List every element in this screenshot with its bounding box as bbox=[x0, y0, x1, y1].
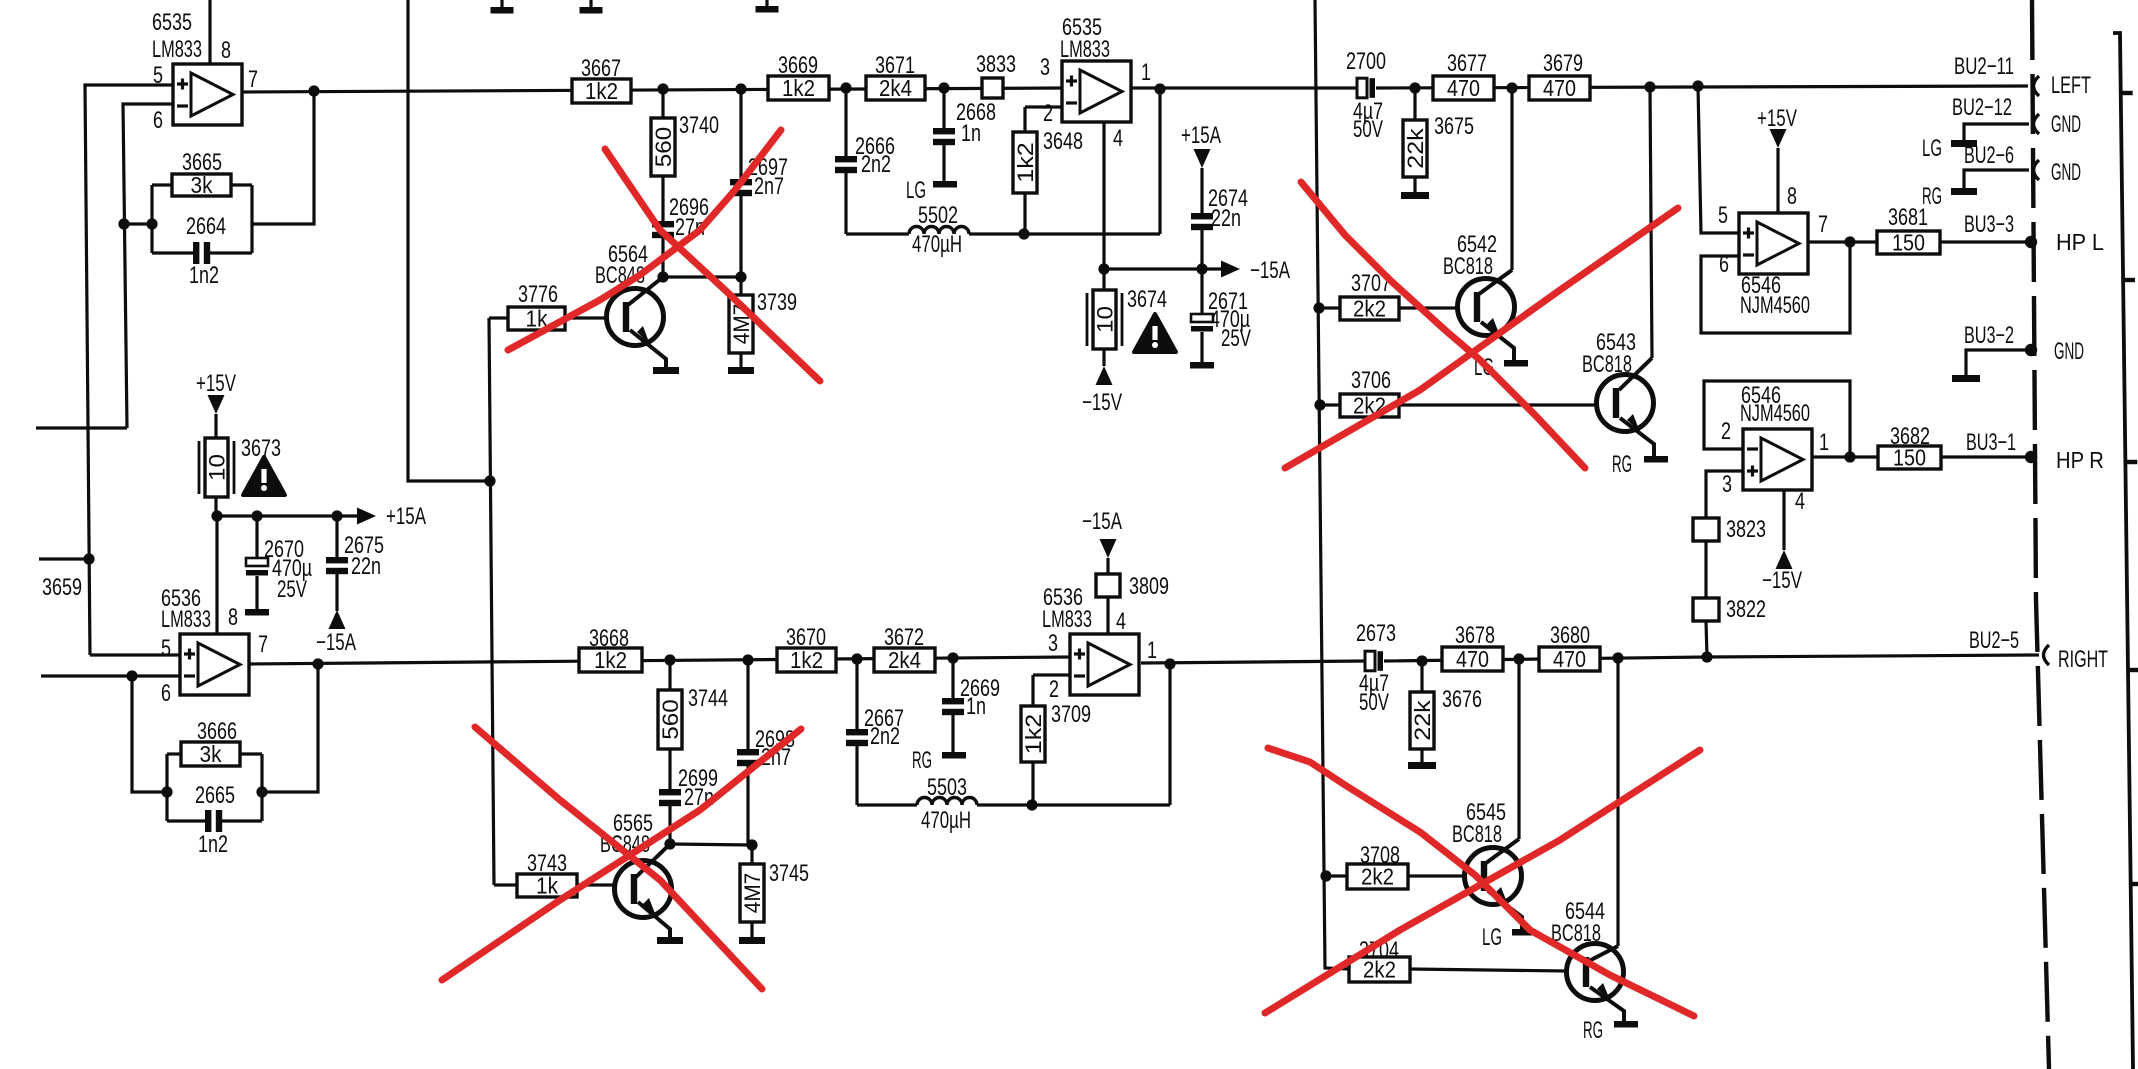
wire output 6546a bbox=[1808, 240, 1877, 243]
node 3675 tap bbox=[1409, 82, 1420, 93]
wire pin2 6535b bbox=[1025, 105, 1062, 108]
svg-text:3k: 3k bbox=[200, 741, 222, 767]
wire BU2-6 to RG bbox=[1964, 170, 2029, 189]
svg-text:3679: 3679 bbox=[1543, 50, 1583, 77]
resistor 3678 470 bbox=[1442, 647, 1503, 671]
svg-text:BU3−1: BU3−1 bbox=[1966, 429, 2016, 456]
node 4M7 top bbox=[735, 271, 746, 282]
svg-text:2k4: 2k4 bbox=[879, 75, 912, 101]
wire output feedback drop bbox=[1158, 89, 1161, 234]
svg-text:470: 470 bbox=[1447, 75, 1480, 101]
wire collector 6565 bbox=[636, 844, 670, 877]
svg-text:3: 3 bbox=[1040, 54, 1050, 81]
node output 6535a bbox=[308, 85, 319, 96]
capacitor 2675 22n bbox=[335, 516, 338, 557]
svg-text:−15A: −15A bbox=[1082, 508, 1122, 535]
capacitor 2665 1n2 bbox=[167, 819, 205, 822]
resistor 3708 2k2 bbox=[1326, 874, 1347, 877]
connector BU2-6 bbox=[2034, 160, 2040, 180]
svg-text:−15V: −15V bbox=[1762, 567, 1802, 594]
red cross 3 stroke A bbox=[1301, 182, 1585, 468]
node pin6/feedback bbox=[118, 218, 129, 229]
svg-text:3833: 3833 bbox=[976, 51, 1016, 78]
connector BU2-5 bbox=[2044, 645, 2050, 665]
node 6545 collector tap bbox=[1513, 653, 1524, 664]
svg-text:2k2: 2k2 bbox=[1353, 296, 1386, 322]
wire emitter 6542 bbox=[1481, 322, 1514, 361]
wire collector 6542 bbox=[1510, 88, 1513, 270]
ground (top edge 1) bbox=[500, 0, 503, 8]
ground LG (6545) bbox=[1512, 929, 1536, 936]
ground (top edge 2) bbox=[589, 0, 592, 8]
resistor 3669 1k2 bbox=[768, 76, 829, 100]
node 6546a input tap bbox=[1692, 80, 1703, 91]
svg-text:10: 10 bbox=[1093, 306, 1118, 333]
resistor 3673 10 (fusible) bbox=[205, 438, 228, 497]
node feedback left rail b bbox=[161, 786, 172, 797]
red cross 2 stroke A bbox=[475, 727, 762, 989]
svg-text:RG: RG bbox=[912, 747, 932, 774]
wire emitter 6565 bbox=[638, 902, 670, 938]
node 2667 tap bbox=[851, 653, 862, 664]
resistor 3668 1k2 bbox=[579, 648, 642, 672]
svg-text:6: 6 bbox=[153, 107, 163, 134]
arrow -15V (6546b) bbox=[1776, 550, 1793, 569]
arrow +15A bbox=[357, 508, 376, 525]
resistor 3706 2k2 bbox=[1320, 403, 1340, 406]
wire BU3-2 to gnd bbox=[1966, 350, 2031, 376]
red cross 2 stroke B bbox=[442, 729, 801, 980]
ground RG (2669) bbox=[942, 752, 966, 759]
svg-text:3744: 3744 bbox=[688, 685, 728, 712]
wire 3823-3822 bbox=[1704, 541, 1707, 598]
svg-text:LEFT: LEFT bbox=[2051, 72, 2091, 99]
wire pin5 6536a bbox=[90, 653, 180, 656]
resistor 3707 2k2 bbox=[1319, 306, 1340, 309]
svg-text:1k2: 1k2 bbox=[585, 78, 618, 104]
node 6542 collector tap bbox=[1506, 82, 1517, 93]
svg-text:1k2: 1k2 bbox=[594, 647, 627, 673]
wire output 6535b bbox=[1132, 86, 1357, 89]
svg-text:1: 1 bbox=[1147, 637, 1157, 664]
resistor 3672 2k4 bbox=[874, 648, 935, 672]
wire feedback line 5503 bbox=[857, 803, 917, 806]
ground LG (6542) bbox=[1504, 360, 1528, 367]
resistor 3739 4M7 bbox=[739, 277, 742, 295]
op-amp U6536b bbox=[1070, 634, 1139, 695]
svg-text:3674: 3674 bbox=[1127, 286, 1167, 313]
svg-text:−15A: −15A bbox=[1250, 257, 1290, 284]
svg-text:RG: RG bbox=[1583, 1017, 1603, 1044]
svg-text:22n: 22n bbox=[1211, 205, 1241, 232]
node 2675 tap bbox=[331, 510, 342, 521]
node feedback left rail bbox=[146, 218, 157, 229]
svg-text:+15A: +15A bbox=[386, 503, 426, 530]
svg-text:1n: 1n bbox=[966, 693, 986, 720]
wire output feedback drop b bbox=[1168, 664, 1171, 805]
node 2697 tap bbox=[735, 83, 746, 94]
wire feedback loop rails bbox=[150, 185, 153, 253]
wire input lower bbox=[41, 674, 180, 677]
svg-text:7: 7 bbox=[1818, 211, 1828, 238]
arrow -15A (rail) bbox=[1221, 261, 1240, 278]
node 3745 top bbox=[746, 839, 757, 850]
node output 6546b bbox=[1844, 451, 1855, 462]
svg-text:2k4: 2k4 bbox=[888, 647, 921, 673]
svg-text:1k2: 1k2 bbox=[1013, 142, 1038, 183]
node jog bbox=[484, 475, 495, 486]
node 3706 tap bbox=[1314, 399, 1325, 410]
wire pin2 6536b bbox=[1033, 673, 1070, 676]
svg-text:150: 150 bbox=[1892, 230, 1925, 256]
svg-text:2: 2 bbox=[1049, 676, 1059, 703]
power +15V arrow bbox=[208, 395, 225, 414]
warning triangle 3674 bbox=[1134, 314, 1176, 352]
svg-text:25V: 25V bbox=[1221, 325, 1251, 352]
wire BU2-12 to LG bbox=[1964, 124, 2029, 141]
svg-text:22k: 22k bbox=[1403, 127, 1428, 169]
resistor 3674 10 (fusible) bbox=[1093, 290, 1116, 349]
node collector 6565 bbox=[664, 838, 675, 849]
svg-text:LM833: LM833 bbox=[1060, 36, 1110, 63]
connector BU2-12 bbox=[2034, 114, 2040, 134]
svg-text:RIGHT: RIGHT bbox=[2058, 646, 2108, 673]
svg-text:470: 470 bbox=[1456, 646, 1489, 672]
svg-text:2: 2 bbox=[1043, 100, 1053, 127]
capacitor 2698 2n7 bbox=[746, 660, 749, 749]
svg-text:3776: 3776 bbox=[518, 281, 558, 308]
svg-text:LG: LG bbox=[1482, 924, 1502, 951]
svg-text:560: 560 bbox=[651, 127, 676, 168]
node 3648 bottom bbox=[1018, 228, 1029, 239]
svg-text:470: 470 bbox=[1553, 646, 1586, 672]
capacitor 2696 27n bbox=[661, 176, 664, 221]
wire feedback tap bbox=[124, 222, 152, 225]
svg-text:+15V: +15V bbox=[1757, 105, 1797, 132]
svg-text:3: 3 bbox=[1048, 630, 1058, 657]
svg-text:8: 8 bbox=[221, 37, 231, 64]
node output 6536b bbox=[1164, 658, 1175, 669]
svg-text:1k2: 1k2 bbox=[790, 647, 823, 673]
red cross 4 stroke A bbox=[1268, 748, 1694, 1016]
svg-text:+15A: +15A bbox=[1181, 122, 1221, 149]
node pin6 6536a bbox=[126, 670, 137, 681]
node +15A rail left bbox=[211, 510, 222, 521]
node collector 6564 bbox=[657, 271, 668, 282]
wire 6546a pin5 drop bbox=[1698, 86, 1739, 233]
svg-text:6535: 6535 bbox=[152, 9, 192, 36]
node 2669 tap bbox=[947, 652, 958, 663]
svg-text:25V: 25V bbox=[277, 576, 307, 603]
node pin4/-15A rail bbox=[1098, 263, 1109, 274]
resistor 3677 470 bbox=[1433, 76, 1494, 100]
svg-text:3676: 3676 bbox=[1442, 686, 1482, 713]
wire 3822 to bus bbox=[1706, 621, 1707, 657]
node 3708 tap bbox=[1320, 870, 1331, 881]
arrow -15A (3809) bbox=[1100, 539, 1117, 558]
svg-text:3675: 3675 bbox=[1434, 113, 1474, 140]
svg-text:2n2: 2n2 bbox=[870, 723, 900, 750]
svg-text:1n2: 1n2 bbox=[198, 831, 228, 858]
svg-text:LM833: LM833 bbox=[1042, 606, 1092, 633]
inductor L5502 bbox=[909, 227, 969, 235]
svg-text:2n2: 2n2 bbox=[861, 151, 891, 178]
capacitor 2673 4u7 bbox=[1365, 651, 1375, 671]
capacitor 2697 2n7 bbox=[739, 89, 742, 179]
svg-text:470µH: 470µH bbox=[912, 231, 962, 258]
svg-text:BC818: BC818 bbox=[1452, 821, 1502, 848]
node 6543 collector tap bbox=[1644, 81, 1655, 92]
wire feedback line 5502 bbox=[846, 232, 909, 235]
svg-text:−15A: −15A bbox=[316, 629, 356, 656]
node output 6546a bbox=[1844, 236, 1855, 247]
wire feedback rails b bbox=[165, 754, 168, 821]
red cross 3 stroke B bbox=[1285, 208, 1678, 468]
svg-text:7: 7 bbox=[258, 631, 268, 658]
resistor 3671 2k4 bbox=[866, 76, 925, 100]
wire feedback to output b bbox=[262, 664, 318, 792]
resistor 3833 bbox=[982, 78, 1003, 98]
node 3822 tap bbox=[1701, 651, 1712, 662]
wire pin8 6536a bbox=[215, 516, 218, 634]
wire emitter 6544 bbox=[1590, 987, 1624, 1022]
svg-text:1n2: 1n2 bbox=[189, 262, 219, 289]
wire input upper bbox=[36, 426, 127, 429]
svg-text:2673: 2673 bbox=[1356, 620, 1396, 647]
svg-text:22n: 22n bbox=[351, 553, 381, 580]
svg-text:560: 560 bbox=[658, 699, 683, 740]
op-amp U6535a bbox=[173, 64, 242, 125]
ground (top edge 3) bbox=[765, 0, 768, 6]
svg-text:2: 2 bbox=[1721, 418, 1731, 445]
svg-text:2k2: 2k2 bbox=[1361, 864, 1394, 890]
wire feedback 6546a bbox=[1701, 242, 1850, 333]
svg-text:3678: 3678 bbox=[1455, 622, 1495, 649]
svg-text:50V: 50V bbox=[1353, 116, 1383, 143]
resistor 3776 1k bbox=[489, 316, 508, 319]
wire collector 6543 bbox=[1650, 87, 1652, 358]
resistor 3665 3k bbox=[152, 183, 172, 186]
resistor 3682 150 bbox=[1878, 446, 1941, 469]
red cross 1 stroke B bbox=[508, 130, 781, 350]
tick right edge y93 bbox=[2121, 91, 2133, 95]
op-amp U6536a bbox=[180, 634, 249, 695]
svg-text:1n: 1n bbox=[961, 120, 981, 147]
tick right edge y670 bbox=[2128, 668, 2138, 672]
svg-text:NJM4560: NJM4560 bbox=[1740, 400, 1810, 427]
capacitor 2668 1n bbox=[942, 88, 945, 128]
svg-text:1k2: 1k2 bbox=[782, 75, 815, 101]
wire output 6546b bbox=[1812, 455, 1878, 458]
capacitor 2664 1n2 bbox=[152, 251, 193, 254]
svg-text:3659: 3659 bbox=[42, 574, 82, 601]
svg-text:1k2: 1k2 bbox=[1021, 714, 1046, 755]
wire feedback drop 6536a bbox=[132, 676, 167, 792]
wire pin4 6536b bbox=[1106, 597, 1109, 634]
arrow -15V (3674) bbox=[1102, 349, 1105, 366]
wire 3659 input bbox=[39, 557, 90, 560]
svg-text:8: 8 bbox=[1787, 183, 1797, 210]
wire output 6536a bbox=[249, 657, 1070, 664]
svg-text:BU2−11: BU2−11 bbox=[1954, 53, 2014, 80]
node 3740 tap bbox=[657, 83, 668, 94]
transistor Q6543 BC818 bbox=[1597, 375, 1654, 432]
resistor 3666 3k bbox=[167, 752, 181, 755]
transistor Q6564 BC848 bbox=[607, 289, 664, 346]
tick right edge y462 bbox=[2125, 460, 2137, 464]
resistor 3745 4M7 bbox=[750, 845, 753, 864]
wire pin6 6535a bbox=[123, 104, 173, 428]
svg-text:4: 4 bbox=[1795, 488, 1805, 515]
svg-text:BC818: BC818 bbox=[1443, 253, 1493, 280]
svg-text:5503: 5503 bbox=[927, 774, 967, 801]
svg-text:10: 10 bbox=[205, 454, 230, 481]
arrow +15A (2674) bbox=[1194, 149, 1211, 168]
node 6544 collector tap bbox=[1612, 652, 1623, 663]
svg-text:3673: 3673 bbox=[241, 435, 281, 462]
resistor 3670 1k2 bbox=[777, 648, 836, 672]
capacitor 2699 27n bbox=[668, 749, 671, 789]
svg-text:LM833: LM833 bbox=[152, 36, 202, 63]
svg-text:4M7: 4M7 bbox=[740, 873, 765, 914]
svg-text:3740: 3740 bbox=[679, 112, 719, 139]
power +15V arrow (6546a) bbox=[1770, 129, 1787, 148]
svg-text:HP R: HP R bbox=[2056, 447, 2104, 473]
svg-text:GND: GND bbox=[2051, 111, 2081, 138]
tick right edge y280 bbox=[2123, 278, 2135, 282]
svg-text:4: 4 bbox=[1113, 125, 1123, 152]
svg-text:2k2: 2k2 bbox=[1363, 957, 1396, 983]
node 2671 tap bbox=[1196, 263, 1207, 274]
connector BU3-3 bbox=[2025, 236, 2037, 248]
svg-text:BU2−5: BU2−5 bbox=[1969, 627, 2019, 654]
resistor 3823 bbox=[1693, 518, 1719, 541]
svg-text:3: 3 bbox=[1722, 471, 1732, 498]
ground RG (6543) bbox=[1644, 456, 1668, 463]
svg-text:150: 150 bbox=[1893, 445, 1926, 471]
svg-text:5: 5 bbox=[161, 635, 171, 662]
svg-text:50V: 50V bbox=[1359, 689, 1389, 716]
svg-text:5: 5 bbox=[1718, 202, 1728, 229]
wire output 6535a bbox=[242, 88, 1062, 92]
capacitor 2670 470u bbox=[255, 516, 258, 558]
warning triangle 3673 bbox=[243, 457, 285, 495]
svg-text:3822: 3822 bbox=[1726, 596, 1766, 623]
svg-text:4: 4 bbox=[1116, 608, 1126, 635]
wire vertical x490 bbox=[489, 318, 494, 885]
svg-text:8: 8 bbox=[228, 604, 238, 631]
wire collector link b bbox=[670, 844, 752, 845]
ground RG (6544) bbox=[1614, 1021, 1638, 1028]
ground LG (2668) bbox=[933, 181, 957, 188]
resistor 3648 1k2 bbox=[1023, 107, 1026, 132]
svg-text:BU3−2: BU3−2 bbox=[1964, 322, 2014, 349]
connector BU2-11 bbox=[2034, 76, 2040, 96]
resistor 3743 1k bbox=[494, 883, 517, 886]
resistor 3680 470 bbox=[1539, 647, 1600, 671]
svg-text:3677: 3677 bbox=[1447, 50, 1487, 77]
node 2668 tap bbox=[938, 82, 949, 93]
node output 6535b bbox=[1154, 83, 1165, 94]
node 2698 tap bbox=[742, 654, 753, 665]
node 3707 tap bbox=[1313, 302, 1324, 313]
resistor 3740 560 bbox=[661, 89, 664, 118]
svg-text:6: 6 bbox=[161, 680, 171, 707]
svg-text:RG: RG bbox=[1922, 183, 1942, 210]
svg-text:3680: 3680 bbox=[1550, 622, 1590, 649]
svg-text:LG: LG bbox=[906, 177, 926, 204]
resistor 3675 22k bbox=[1413, 88, 1416, 120]
capacitor 2671 470u bbox=[1200, 269, 1203, 314]
connector BU3-2 bbox=[2025, 344, 2037, 356]
svg-text:5502: 5502 bbox=[918, 202, 958, 229]
capacitor 2666 2n2 bbox=[844, 88, 847, 156]
resistor 3709 1k2 bbox=[1031, 675, 1034, 706]
wire collector 6544 bbox=[1616, 658, 1619, 946]
transistor Q6544 BC818 bbox=[1567, 944, 1624, 1001]
svg-text:NJM4560: NJM4560 bbox=[1740, 292, 1810, 319]
svg-text:3706: 3706 bbox=[1351, 367, 1391, 394]
node output 6536a bbox=[312, 658, 323, 669]
svg-text:1k: 1k bbox=[536, 873, 558, 899]
svg-text:BU2−12: BU2−12 bbox=[1952, 94, 2012, 121]
wire right edge bbox=[2113, 33, 2133, 1069]
wire feedback 6546b bbox=[1704, 381, 1850, 457]
wire dashed boundary bbox=[2032, 0, 2049, 1069]
wire pin5 6535a bbox=[85, 85, 173, 655]
svg-text:3745: 3745 bbox=[769, 860, 809, 887]
red cross 4 stroke B bbox=[1265, 750, 1700, 1013]
wire collector link bbox=[663, 275, 741, 278]
svg-text:470: 470 bbox=[1543, 75, 1576, 101]
wire pin4 6546b bbox=[1782, 490, 1785, 550]
svg-text:3739: 3739 bbox=[757, 289, 797, 316]
svg-text:7: 7 bbox=[248, 66, 258, 93]
svg-text:1: 1 bbox=[1141, 59, 1151, 86]
transistor Q6545 BC818 bbox=[1465, 848, 1522, 905]
capacitor 2700 4u7 bbox=[1357, 78, 1367, 98]
svg-text:3823: 3823 bbox=[1726, 516, 1766, 543]
node 2670 tap bbox=[251, 510, 262, 521]
svg-text:LG: LG bbox=[1922, 135, 1942, 162]
ground RG (BU2-6) bbox=[1951, 188, 1977, 195]
capacitor 2674 22n bbox=[1191, 213, 1213, 219]
wire +15A rail bbox=[217, 514, 360, 517]
op-amp U6546a bbox=[1739, 213, 1808, 274]
svg-text:3k: 3k bbox=[191, 172, 213, 198]
svg-text:BU3−3: BU3−3 bbox=[1964, 211, 2014, 238]
ground LG (BU2-12) bbox=[1951, 140, 1977, 147]
arrow -15A (below 2675) bbox=[329, 610, 346, 629]
node 3659 bbox=[83, 553, 94, 564]
node 3744 tap bbox=[664, 654, 675, 665]
wire emitter 6545 bbox=[1488, 891, 1522, 930]
transistor Q6565 BC848 bbox=[615, 861, 672, 918]
resistor 3676 22k bbox=[1420, 661, 1423, 692]
ground (BU3-2) bbox=[1952, 375, 1980, 382]
red cross 1 stroke A bbox=[605, 149, 820, 381]
svg-text:LM833: LM833 bbox=[161, 606, 211, 633]
connector BU3-1 bbox=[2025, 451, 2037, 463]
resistor 3809 bbox=[1106, 558, 1109, 574]
svg-text:+15V: +15V bbox=[196, 370, 236, 397]
svg-text:2n7: 2n7 bbox=[754, 173, 784, 200]
svg-text:22k: 22k bbox=[1410, 699, 1435, 741]
resistor 3681 150 bbox=[1877, 231, 1940, 254]
tick right edge y884 bbox=[2131, 882, 2138, 886]
svg-text:−15V: −15V bbox=[1082, 389, 1122, 416]
svg-text:3648: 3648 bbox=[1043, 128, 1083, 155]
